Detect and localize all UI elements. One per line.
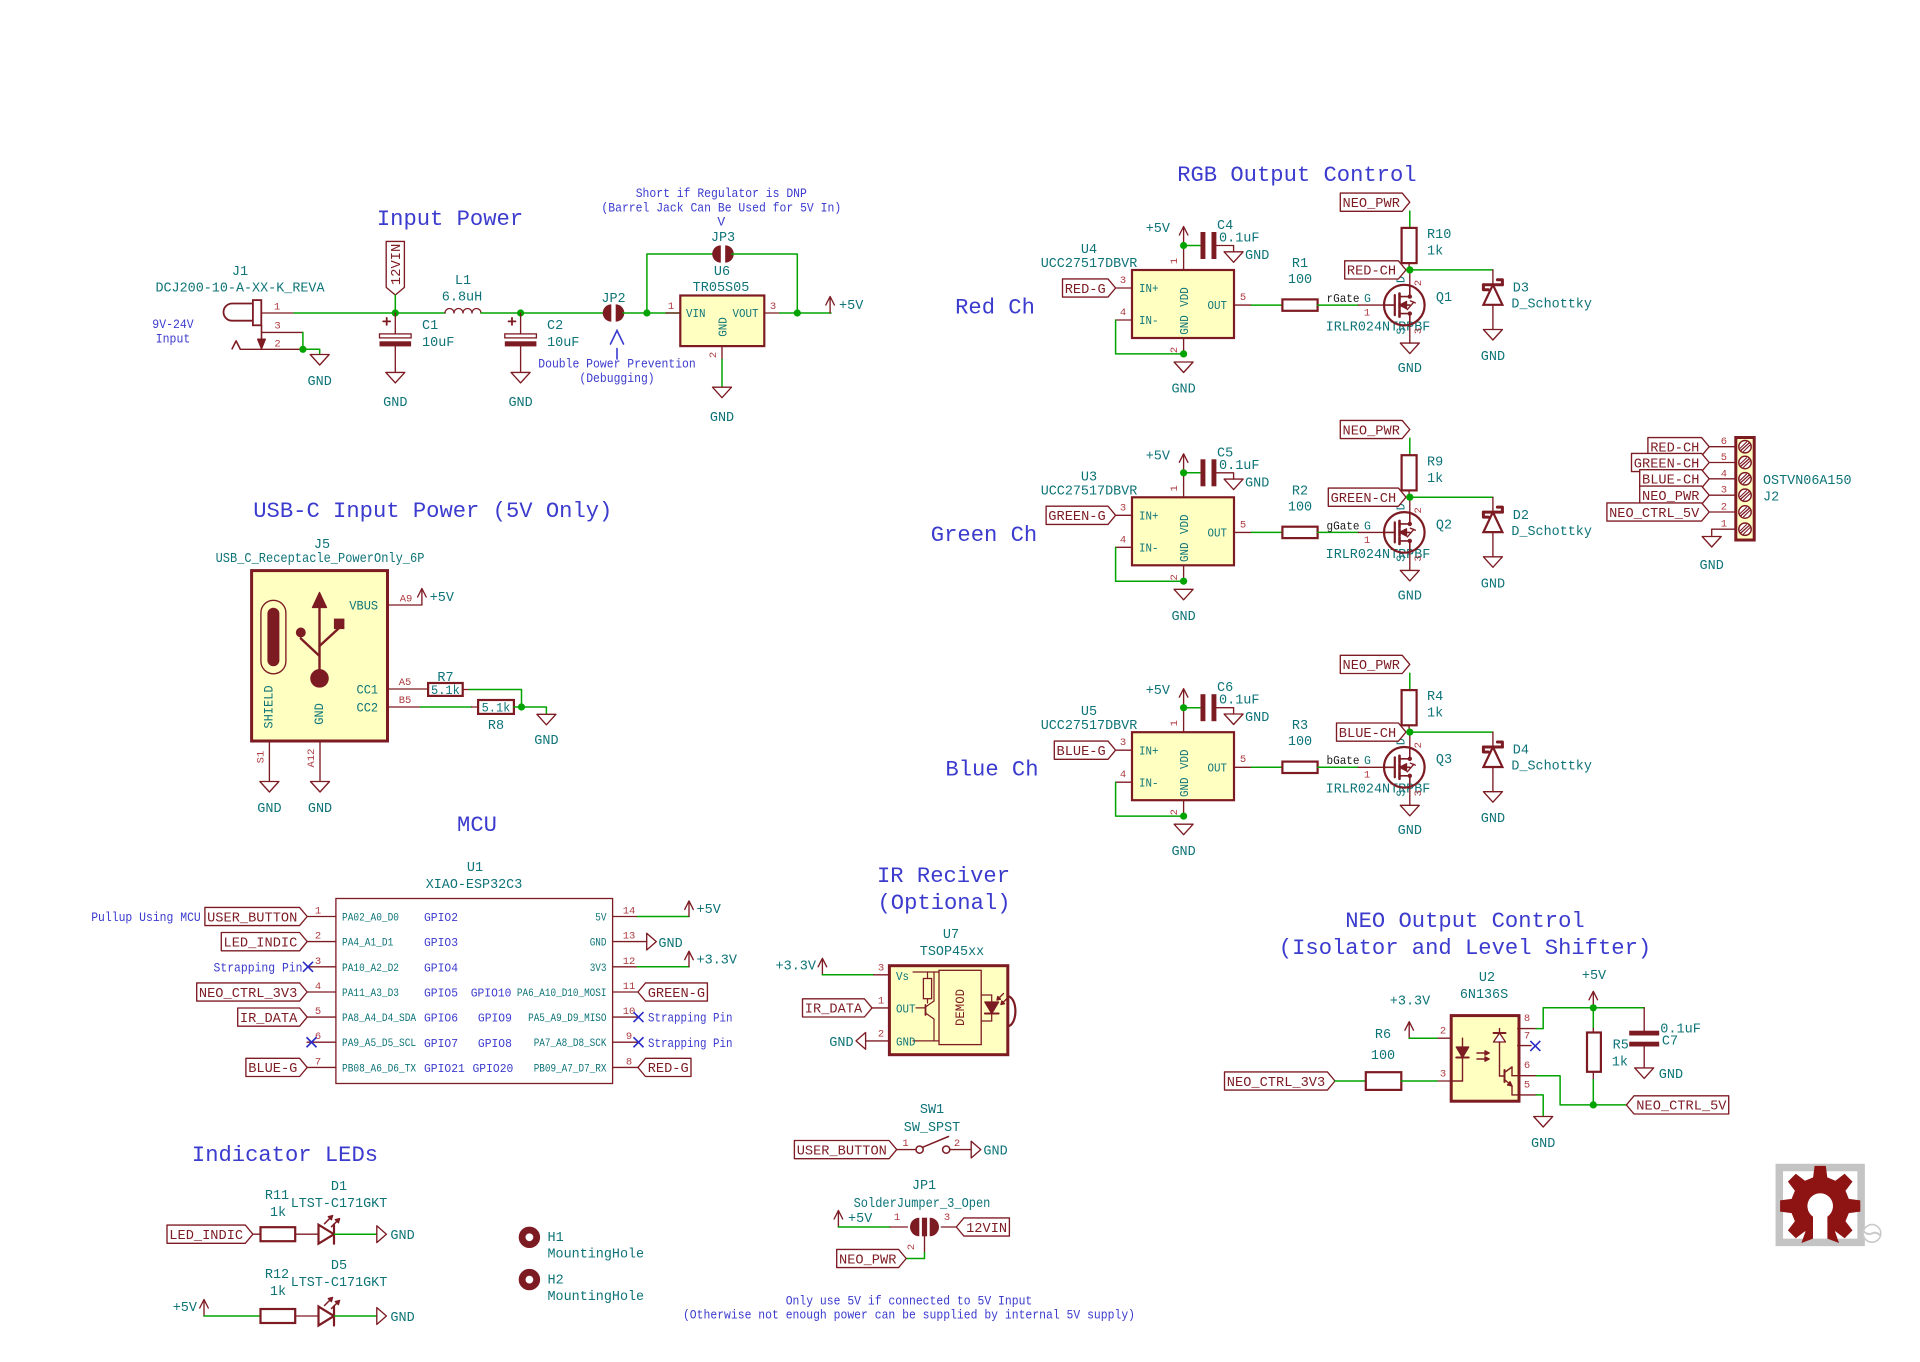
capacitor C4 value 0.1uF: [1219, 231, 1260, 247]
svg-text:GPIO8: GPIO8: [478, 1038, 512, 1051]
U3 pin 5 number: [1240, 519, 1246, 531]
svg-text:GPIO3: GPIO3: [424, 937, 458, 950]
svg-text:D2: D2: [1513, 508, 1529, 524]
ground symbol under U4: [1171, 362, 1195, 398]
wire +3.3V to U2 pin 2: [1409, 1037, 1437, 1039]
resistor R3 reference: [1292, 718, 1308, 734]
resistor R11 value 1k: [270, 1205, 286, 1221]
svg-text:+5V: +5V: [1146, 221, 1171, 237]
resistor R11 reference: [265, 1188, 289, 1204]
led D1 symbol: [319, 1216, 340, 1244]
wire U1 5V to +5V: [637, 916, 689, 918]
global label BLUE-G: [1054, 741, 1115, 760]
transistor Q3 reference: [1436, 752, 1452, 768]
svg-text:LED_INDIC: LED_INDIC: [169, 1229, 243, 1244]
svg-text:GPIO2: GPIO2: [424, 912, 458, 925]
svg-text:GND: GND: [308, 801, 332, 817]
svg-text:D3: D3: [1513, 281, 1529, 297]
ir receiver U7 reference: [943, 927, 959, 943]
U3 pin 2 stub: [1183, 565, 1185, 581]
Q1 pin 3 number: [1413, 328, 1425, 334]
global label RED-G at U1: [638, 1058, 691, 1077]
diode D4 top stub: [1492, 732, 1494, 747]
svg-text:3V3: 3V3: [590, 963, 607, 975]
U5 pin 5 stub: [1234, 766, 1252, 768]
svg-text:GND: GND: [658, 936, 682, 952]
+5V text at VBUS: [430, 590, 455, 606]
+5V text at U1: [697, 902, 722, 918]
GND text at D5: [390, 1310, 414, 1326]
svg-text:10uF: 10uF: [422, 335, 454, 351]
J5 GND pin stub: [319, 741, 321, 781]
mcu U1 body: [336, 899, 613, 1084]
U3 pin 2 number: [1169, 574, 1181, 580]
resistor R6 value 100: [1371, 1048, 1395, 1064]
diode D2 top stub: [1492, 497, 1494, 512]
ground symbol at cap C6: [1224, 710, 1269, 726]
U7 pin 2 stub: [866, 1040, 890, 1042]
wire U4 IN- to GND net: [1116, 320, 1181, 354]
SW1 pin 2 stub: [950, 1149, 971, 1151]
resistor R10 reference: [1427, 227, 1451, 243]
global label NEO_PWR at JP1: [837, 1249, 907, 1268]
U3 pin name IN+: [1139, 511, 1159, 524]
svg-text:9: 9: [626, 1031, 632, 1043]
svg-text:D4: D4: [1513, 743, 1529, 759]
inductor L1 value 6.8uH: [442, 290, 483, 306]
wire VDD junction to capacitor: [1184, 472, 1200, 474]
svg-text:C1: C1: [422, 318, 438, 334]
svg-text:12VIN: 12VIN: [390, 244, 405, 286]
note 9V-24V Input: [152, 317, 194, 347]
svg-text:(Debugging): (Debugging): [579, 371, 654, 386]
ground symbol under U3: [1171, 589, 1195, 625]
svg-text:12VIN: 12VIN: [966, 1222, 1007, 1237]
ground arrow at D1: [377, 1226, 387, 1243]
wire VDD junction to capacitor: [1184, 245, 1200, 247]
global label IR_DATA at U1: [238, 1008, 308, 1027]
U6 pin name VIN: [686, 308, 706, 321]
svg-text:1k: 1k: [1612, 1055, 1628, 1071]
U5 pin 3 stub: [1116, 749, 1132, 751]
svg-text:8: 8: [1524, 1013, 1530, 1025]
ground symbol at cap C5: [1224, 475, 1269, 491]
diode D4 value D_Schottky: [1511, 759, 1592, 775]
C1 pin wires: [394, 313, 396, 371]
svg-text:B5: B5: [399, 695, 412, 707]
section title: NEO Output Control: [1345, 909, 1584, 934]
svg-text:R5: R5: [1613, 1038, 1629, 1054]
svg-text:1k: 1k: [270, 1284, 286, 1300]
capacitor C7 reference: [1662, 1034, 1678, 1050]
svg-text:GND: GND: [383, 395, 407, 411]
cap to ground stub: [1216, 708, 1234, 714]
junction U5 GND: [1180, 813, 1187, 820]
svg-text:GPIO6: GPIO6: [424, 1013, 458, 1026]
GND text at U1 pin 13: [658, 936, 682, 952]
transistor Q1 symbol: [1384, 285, 1425, 326]
svg-text:1k: 1k: [1427, 244, 1443, 260]
svg-text:Input Power: Input Power: [377, 207, 523, 232]
U5 pin 1 stub: [1183, 708, 1185, 733]
U7 internal photodiode: [981, 994, 1007, 1022]
junction input rail at C2: [517, 309, 524, 316]
transistor Q1 gate pin name G: [1364, 293, 1371, 306]
svg-text:5.1k: 5.1k: [431, 684, 460, 698]
section title: Indicator LEDs: [192, 1143, 378, 1168]
svg-text:1: 1: [315, 906, 321, 918]
svg-text:5V: 5V: [595, 913, 607, 925]
ground arrow at D5: [377, 1308, 387, 1325]
gate driver U3 value UCC27517DBVR: [1041, 483, 1138, 499]
svg-text:UCC27517DBVR: UCC27517DBVR: [1041, 256, 1138, 272]
svg-text:+3.3V: +3.3V: [697, 953, 738, 969]
junction NEO_CTRL_5V node: [1590, 1101, 1597, 1108]
no-connect X at U1 pin 9: [634, 1037, 644, 1047]
svg-text:0.1uF: 0.1uF: [1219, 231, 1260, 247]
resistor R8 body: [478, 700, 514, 714]
led D5 value LTST-C171GKT: [291, 1275, 388, 1291]
svg-text:GPIO21: GPIO21: [424, 1063, 465, 1076]
SW1 pin 2 number: [954, 1138, 960, 1150]
svg-text:Only use 5V if connected to 5V: Only use 5V if connected to 5V Input: [786, 1294, 1033, 1309]
svg-text:+5V: +5V: [697, 902, 722, 918]
svg-text:5: 5: [1240, 519, 1246, 531]
U2 pin 3 number: [1440, 1069, 1446, 1081]
global label NEO_CTRL_3V3 at U1: [197, 983, 308, 1002]
U4 pin 1 stub: [1183, 246, 1185, 271]
decoupling capacitor C6 symbol: [1201, 694, 1217, 721]
svg-text:1: 1: [1364, 308, 1370, 320]
junction input rail at C1: [392, 309, 399, 316]
svg-text:CC2: CC2: [357, 700, 379, 715]
global label GREEN-CH: [1328, 488, 1406, 507]
cap to ground stub: [1216, 246, 1234, 252]
svg-text:U7: U7: [943, 927, 959, 943]
J5 pin name CC2: [357, 700, 379, 715]
svg-text:IR Reciver: IR Reciver: [877, 864, 1010, 889]
U1 inner GPIO20 name: [473, 1063, 514, 1076]
svg-text:7: 7: [315, 1056, 321, 1068]
U5 pin 4 number: [1120, 769, 1126, 781]
J5 pin B5 number: [399, 695, 412, 707]
junction drain node: [1406, 494, 1413, 501]
svg-text:NEO_PWR: NEO_PWR: [1343, 197, 1400, 212]
U2 pin 7 stub: [1518, 1045, 1531, 1047]
solder jumper JP2 reference: [601, 291, 625, 307]
svg-text:0.1uF: 0.1uF: [1219, 693, 1260, 709]
wire J1 pin3 down to pin2 net: [302, 332, 304, 349]
U5 pin 1 number: [1169, 720, 1181, 726]
transistor Q2 reference: [1436, 517, 1452, 533]
jumper JP1 symbol: [910, 1218, 939, 1237]
+5V text at U4: [1146, 221, 1171, 237]
resistor R3 value 100: [1288, 734, 1312, 750]
connector J1 value DCJ200-10-A-XX-K_REVA: [155, 281, 325, 297]
U3 pin name GND (vertical): [1179, 542, 1192, 562]
diode D4 symbol D_Schottky: [1483, 742, 1502, 767]
transistor Q2 gate stub: [1358, 531, 1384, 533]
junction at J1 pin2/pin3: [299, 346, 306, 353]
note (Barrel Jack Can Be Used for 5V In): [601, 201, 841, 216]
J5 USB trident logo: [297, 593, 345, 688]
global label USER_BUTTON at SW1: [794, 1141, 896, 1160]
svg-text:Indicator LEDs: Indicator LEDs: [192, 1143, 378, 1168]
svg-text:2: 2: [954, 1138, 960, 1150]
svg-text:A5: A5: [399, 677, 412, 689]
svg-text:R9: R9: [1427, 454, 1443, 470]
Q3 drain stub: [1409, 732, 1411, 747]
connector J2 screw terminals: [1739, 441, 1751, 536]
global label IR_DATA at U7: [803, 999, 873, 1018]
J5 CC2 pin stub: [388, 706, 421, 708]
Q2 pin 3 number: [1413, 555, 1425, 561]
wire JP3 right to +5V rail: [732, 254, 798, 313]
svg-text:A9: A9: [400, 594, 413, 606]
svg-text:JP1: JP1: [912, 1178, 936, 1194]
connector J5 value USB_C_Receptacle_PowerOnly_6P: [216, 551, 425, 567]
svg-text:U1: U1: [467, 860, 483, 876]
svg-text:+3.3V: +3.3V: [776, 958, 817, 974]
svg-text:3: 3: [944, 1212, 950, 1224]
U5 pin name IN+: [1139, 745, 1159, 758]
junction CC pulldown: [518, 703, 525, 710]
U5 pin name IN-: [1139, 777, 1159, 790]
transistor Q1 reference: [1436, 290, 1452, 306]
Q3 source stub: [1409, 788, 1411, 806]
U4 pin name IN-: [1139, 315, 1159, 328]
svg-text:PA5_A9_D9_MISO: PA5_A9_D9_MISO: [528, 1013, 607, 1025]
svg-text:VBUS: VBUS: [349, 599, 378, 614]
wire NEO_PWR to R9: [1409, 438, 1411, 455]
svg-text:GND: GND: [257, 801, 281, 817]
svg-text:C7: C7: [1662, 1034, 1678, 1050]
wire NEO_CTRL_3V3 to R6: [1335, 1080, 1366, 1082]
U2 internal photodiode: [1494, 1029, 1506, 1066]
svg-text:NEO_PWR: NEO_PWR: [1343, 659, 1400, 674]
svg-text:IN-: IN-: [1139, 315, 1159, 328]
SW1 pin 1 number: [902, 1138, 908, 1150]
svg-text:Short if Regulator is DNP: Short if Regulator is DNP: [636, 186, 807, 201]
transistor Q2 pin 1 number: [1364, 535, 1370, 547]
ground symbol under Q1: [1398, 343, 1422, 377]
svg-text:2: 2: [1440, 1026, 1446, 1038]
svg-text:PA9_A5_D5_SCL: PA9_A5_D5_SCL: [342, 1038, 416, 1050]
diode D2 symbol D_Schottky: [1483, 507, 1502, 532]
global label NEO_PWR (Blue Ch): [1340, 655, 1410, 674]
note arrow Double Power Prevention: [611, 331, 624, 360]
U2 pin 5 stub: [1518, 1094, 1537, 1096]
svg-text:Strapping Pin: Strapping Pin: [214, 960, 303, 975]
capacitor C6 reference: [1217, 680, 1233, 696]
svg-text:Pullup Using MCU: Pullup Using MCU: [91, 910, 201, 925]
U2 pin 7 number: [1524, 1031, 1530, 1043]
svg-text:H1: H1: [548, 1230, 564, 1246]
wire L1 to C2/JP2: [481, 312, 604, 314]
connector J2 value OSTVN06A150: [1763, 473, 1852, 489]
svg-text:USB_C_Receptacle_PowerOnly_6P: USB_C_Receptacle_PowerOnly_6P: [216, 551, 425, 567]
resistor R7 body: [428, 683, 463, 696]
svg-text:GND: GND: [508, 395, 532, 411]
U4 pin name GND (vertical): [1179, 315, 1192, 335]
power symbol +5V at U4: [1179, 227, 1188, 244]
U3 pin name IN-: [1139, 543, 1159, 556]
svg-text:PA02_A0_D0: PA02_A0_D0: [342, 913, 399, 925]
U6 pin 1 number: [668, 301, 674, 313]
junction U4 GND: [1180, 350, 1187, 357]
connector J2 body: [1736, 438, 1754, 541]
jumper JP1 reference: [912, 1178, 936, 1194]
+5V text at U5: [1146, 683, 1171, 699]
U7 internal DEMOD block: [939, 970, 981, 1044]
svg-text:R1: R1: [1292, 256, 1308, 272]
wire drain node to diode D4: [1410, 731, 1493, 733]
U1 left pin names: [342, 913, 416, 1076]
section title: USB-C Input Power (5V Only): [253, 499, 612, 524]
junction drain node: [1406, 266, 1413, 273]
Q3 drain pin name D: [1396, 738, 1409, 745]
GND text at D1: [390, 1228, 414, 1244]
U4 pin name OUT: [1208, 300, 1228, 313]
svg-text:SHIELD: SHIELD: [262, 685, 277, 728]
Q1 source pin name S: [1396, 327, 1409, 334]
wire +3.3V to U7 Vs: [822, 974, 873, 976]
svg-text:3: 3: [315, 956, 321, 968]
svg-text:Q2: Q2: [1436, 517, 1452, 533]
svg-text:J1: J1: [232, 264, 248, 280]
svg-text:bGate: bGate: [1327, 754, 1360, 768]
resistor R4 body: [1402, 690, 1417, 725]
svg-text:7: 7: [1524, 1031, 1530, 1043]
resistor R10 body: [1402, 228, 1417, 263]
svg-text:OUT: OUT: [1208, 762, 1228, 775]
svg-text:S: S: [1396, 790, 1409, 797]
svg-text:BLUE-G: BLUE-G: [248, 1062, 297, 1077]
svg-text:(Isolator and Level Shifter): (Isolator and Level Shifter): [1279, 936, 1651, 961]
global label BLUE-G at U1: [246, 1058, 307, 1077]
U5 pin name VDD (vertical): [1179, 749, 1192, 769]
svg-text:1: 1: [1364, 770, 1370, 782]
switch SW1 symbol: [916, 1137, 950, 1154]
transistor Q1 pin 1 number: [1364, 308, 1370, 320]
svg-text:VIN: VIN: [686, 308, 706, 321]
transistor Q2 gate pin name G: [1364, 520, 1371, 533]
J5 pin name VBUS: [349, 599, 378, 614]
svg-text:LTST-C171GKT: LTST-C171GKT: [291, 1196, 388, 1212]
transistor Q3 gate pin name G: [1364, 755, 1371, 768]
J1 pin 2 stub: [240, 348, 303, 350]
wire U6 GND to ground: [721, 360, 723, 387]
U6 pin name VOUT: [733, 308, 759, 321]
R4 bottom stub: [1408, 725, 1410, 732]
led D1 reference: [331, 1179, 347, 1195]
svg-text:1: 1: [668, 301, 674, 313]
transistor Q3 symbol: [1384, 747, 1425, 788]
U5 pin 5 number: [1240, 754, 1246, 766]
U7 pin 2 number: [878, 1028, 884, 1040]
transistor Q2 value IRLR024NTRPBF: [1326, 547, 1431, 563]
capacitor C2 symbol: [505, 318, 537, 347]
resistor R11 body: [261, 1227, 296, 1241]
inductor L1 symbol: [445, 309, 481, 314]
svg-text:2: 2: [708, 352, 720, 358]
svg-text:2: 2: [1169, 574, 1181, 580]
global label GREEN-G: [1046, 506, 1116, 525]
svg-text:5: 5: [1240, 754, 1246, 766]
svg-text:D_Schottky: D_Schottky: [1511, 297, 1592, 313]
Q3 source pin name S: [1396, 790, 1409, 797]
svg-text:TR05S05: TR05S05: [693, 280, 750, 296]
svg-text:D5: D5: [331, 1258, 347, 1274]
ground symbol at C7: [1635, 1067, 1683, 1083]
wire OUT to R1: [1252, 304, 1283, 306]
svg-text:D_Schottky: D_Schottky: [1511, 524, 1592, 540]
svg-text:DCJ200-10-A-XX-K_REVA: DCJ200-10-A-XX-K_REVA: [155, 281, 325, 297]
connector J1 reference: [232, 264, 248, 280]
svg-text:R12: R12: [265, 1267, 289, 1283]
junction U5 VDD: [1180, 704, 1187, 711]
svg-text:100: 100: [1288, 272, 1312, 288]
ground symbol at C1: [383, 372, 407, 411]
resistor R9 reference: [1427, 454, 1443, 470]
svg-text:G: G: [1364, 520, 1371, 533]
U3 pin 4 number: [1120, 534, 1126, 546]
capacitor C6 value 0.1uF: [1219, 693, 1260, 709]
section title: Input Power: [377, 207, 523, 232]
U2 pin 8 stub: [1518, 1028, 1537, 1030]
global label GREEN-G at U1: [638, 983, 708, 1002]
svg-text:UCC27517DBVR: UCC27517DBVR: [1041, 483, 1138, 499]
mounting hole H1 reference: [548, 1230, 564, 1246]
svg-text:3: 3: [1440, 1069, 1446, 1081]
+3.3V text at U2: [1390, 994, 1431, 1010]
J1 pin 1 number: [274, 302, 280, 314]
svg-text:3: 3: [1120, 737, 1126, 749]
svg-text:G: G: [1364, 293, 1371, 306]
Q2 drain stub: [1409, 497, 1411, 512]
svg-text:1k: 1k: [1427, 706, 1443, 722]
diode D2 bottom stub: [1492, 532, 1494, 557]
svg-text:GREEN-G: GREEN-G: [1048, 510, 1105, 525]
U4 pin 4 number: [1120, 307, 1126, 319]
wire D1 to GND: [335, 1233, 377, 1235]
junction at U6 VIN / JP3 left: [643, 309, 650, 316]
note Strapping Pin (pin3): [214, 960, 303, 975]
svg-text:3: 3: [1120, 275, 1126, 287]
mounting hole H2 reference: [548, 1272, 564, 1288]
svg-text:(Barrel Jack Can Be Used for 5: (Barrel Jack Can Be Used for 5V In): [601, 201, 841, 216]
junction at U6 VOUT: [794, 309, 801, 316]
svg-text:GPIO20: GPIO20: [473, 1063, 514, 1076]
svg-text:GND: GND: [1481, 811, 1505, 827]
U6 pin 3 stub: [764, 312, 779, 314]
JP1 pin 3 stub: [941, 1226, 956, 1228]
wire OUT to R3: [1252, 766, 1283, 768]
cap to ground stub: [1216, 473, 1234, 479]
power symbol +5V at U2: [1589, 991, 1598, 1008]
ground symbol at J1: [308, 355, 332, 391]
mounting hole H1 symbol: [522, 1230, 537, 1245]
resistor R12 body: [261, 1309, 296, 1323]
solder jumper JP2 symbol: [603, 304, 625, 321]
U5 pin 2 stub: [1183, 800, 1185, 816]
svg-text:2: 2: [1413, 742, 1425, 748]
wire U2 pin 8 to +5V rail: [1536, 1008, 1593, 1029]
gate driver U3 body: [1132, 497, 1234, 565]
diode D3 top stub: [1492, 270, 1494, 285]
diode D3 bottom stub: [1492, 305, 1494, 330]
wire CC2 to R8: [420, 706, 478, 708]
